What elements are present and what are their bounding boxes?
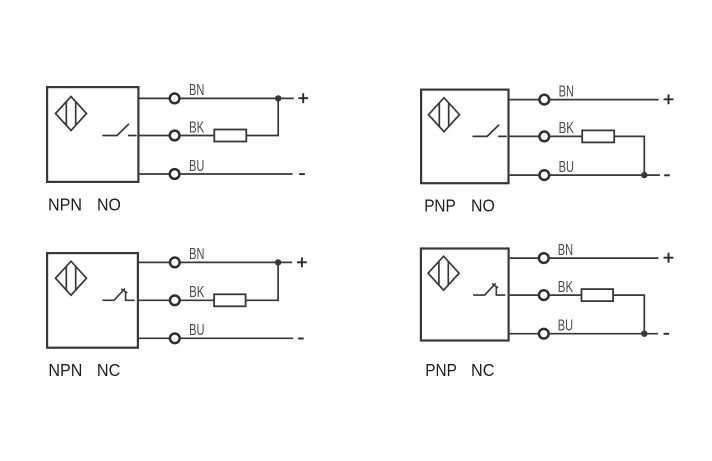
plus supply terminal (NPN NO)	[298, 93, 308, 103]
junction node on BU (PNP NC)	[641, 331, 647, 337]
svg-text:BK: BK	[189, 284, 205, 301]
svg-text:BU: BU	[559, 159, 574, 176]
wire BK box-to-resistor (NPN NC)	[139, 299, 214, 301]
wire BN (NPN NC)	[139, 261, 292, 263]
resistor load on BK (NPN NO)	[214, 130, 246, 142]
NPN NC sensor symbol (diamond)	[56, 261, 87, 295]
NC switch contact (PNP NC)	[474, 284, 505, 295]
svg-text:BU: BU	[189, 322, 204, 339]
NO switch contact (PNP NO)	[473, 125, 506, 136]
svg-text:NC: NC	[471, 360, 494, 380]
svg-text:PNP: PNP	[424, 195, 456, 215]
wire BN (PNP NC)	[510, 257, 659, 259]
minus supply terminal (PNP NC)	[664, 333, 670, 335]
svg-text:PNP: PNP	[425, 360, 457, 380]
plus supply terminal (NPN NC)	[297, 257, 307, 267]
resistor load on BK (PNP NO)	[582, 130, 614, 142]
wire BU (NPN NO)	[140, 173, 293, 175]
plus supply terminal (PNP NC)	[664, 253, 674, 263]
sensor box NPN NO	[47, 87, 138, 182]
wire BK box-to-resistor (NPN NO)	[140, 135, 215, 137]
terminal BK (PNP NO)	[539, 132, 549, 142]
wire BU (PNP NC)	[510, 333, 658, 335]
wire BN (PNP NO)	[510, 99, 659, 101]
terminal BK (NPN NO)	[170, 131, 180, 141]
svg-text:BN: BN	[189, 82, 204, 99]
junction node on BN (NPN NO)	[275, 95, 281, 101]
plus supply terminal (PNP NO)	[664, 94, 674, 104]
caption NPN NO	[48, 195, 121, 215]
terminal BN (NPN NC)	[170, 258, 180, 268]
wire resistor-to-BU node (PNP NO)	[614, 136, 644, 175]
resistor load on BK (PNP NC)	[582, 289, 614, 301]
svg-text:NO: NO	[471, 195, 495, 215]
NO switch contact (NPN NO)	[103, 124, 136, 135]
terminal BN (PNP NC)	[539, 253, 549, 263]
wire BU (PNP NO)	[510, 174, 660, 176]
terminal BU (NPN NC)	[170, 333, 180, 343]
sensor box NPN NC	[47, 253, 138, 348]
svg-text:BU: BU	[558, 318, 573, 335]
junction node on BN (NPN NC)	[275, 259, 281, 265]
terminal BU (PNP NO)	[539, 170, 549, 180]
terminal BN (NPN NO)	[170, 94, 180, 104]
terminal BU (PNP NC)	[539, 329, 549, 339]
svg-text:BN: BN	[189, 246, 204, 263]
wire resistor-to-BN node (NPN NC)	[246, 262, 279, 300]
minus supply terminal (NPN NO)	[299, 173, 305, 175]
terminal BU (NPN NO)	[170, 169, 180, 179]
minus supply terminal (NPN NC)	[298, 338, 304, 340]
caption PNP NC	[425, 360, 494, 380]
wire BU (NPN NC)	[139, 337, 293, 339]
svg-text:BN: BN	[559, 83, 574, 100]
minus supply terminal (PNP NO)	[664, 174, 670, 176]
wire resistor-to-BU node (PNP NC)	[613, 295, 644, 334]
wire resistor-to-BN node (NPN NO)	[246, 98, 278, 135]
svg-text:NO: NO	[97, 195, 121, 215]
resistor load on BK (NPN NC)	[214, 294, 246, 306]
caption PNP NO	[424, 195, 495, 215]
PNP NC sensor symbol (diamond)	[428, 256, 459, 290]
terminal BK (PNP NC)	[539, 290, 549, 300]
terminal BK (NPN NC)	[170, 295, 180, 305]
svg-text:BK: BK	[189, 119, 205, 136]
svg-text:NC: NC	[97, 360, 120, 380]
terminal BN (PNP NO)	[539, 95, 549, 105]
sensor box PNP NC	[421, 249, 509, 341]
wire BN (NPN NO)	[140, 97, 294, 99]
svg-text:NPN: NPN	[48, 360, 82, 380]
svg-text:NPN: NPN	[48, 195, 82, 215]
svg-text:BN: BN	[558, 242, 573, 259]
svg-text:BK: BK	[558, 279, 574, 296]
svg-text:BK: BK	[559, 120, 575, 137]
junction node on BU (PNP NO)	[641, 172, 647, 178]
caption NPN NC	[48, 360, 120, 380]
wire BK box-to-resistor (PNP NO)	[510, 135, 583, 137]
svg-text:BU: BU	[189, 158, 204, 175]
wire BK box-to-resistor (PNP NC)	[510, 294, 582, 296]
PNP NO sensor symbol (diamond)	[429, 98, 460, 132]
NPN NO sensor symbol (diamond)	[56, 97, 87, 131]
NC switch contact (NPN NC)	[103, 289, 134, 300]
sensor box PNP NO	[421, 90, 508, 184]
